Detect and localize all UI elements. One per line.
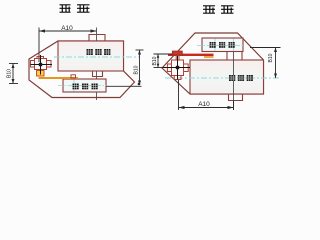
cyan verticals in filter — [214, 39, 216, 52]
horizontal centerline cyan right — [165, 77, 280, 79]
bottom notch — [229, 94, 243, 101]
right dimension B10 — [106, 50, 144, 86]
dimension A10 bottom — [179, 80, 234, 110]
pump cross right — [163, 56, 191, 80]
pump right — [167, 55, 188, 80]
filter centerline right — [197, 45, 243, 47]
refrigerator box — [58, 41, 124, 71]
filter box — [63, 79, 106, 92]
chimney notch on top — [89, 35, 105, 42]
hexagon outline — [29, 41, 135, 98]
svg-text:B10: B10 — [152, 56, 158, 65]
vertical centerline right — [233, 39, 235, 53]
cyan vertical in filter — [73, 80, 75, 92]
svg-text:A10: A10 — [198, 101, 210, 108]
svg-text:A10: A10 — [61, 25, 73, 32]
svg-text:B10: B10 — [268, 53, 274, 62]
filter centerline — [58, 85, 106, 87]
pump assembly — [31, 57, 52, 70]
label filter — [73, 84, 98, 90]
left small dimension right diagram — [154, 54, 173, 68]
orange bit under pipe end — [204, 56, 214, 58]
svg-text:B10: B10 — [7, 69, 13, 78]
extension line left — [38, 28, 40, 63]
label 制冷机 right — [229, 75, 253, 81]
left small dimension B — [9, 64, 18, 84]
svg-text:B10: B10 — [134, 65, 140, 74]
vertical centerline — [96, 28, 98, 101]
filter box right — [202, 38, 243, 52]
thick red pipe — [168, 54, 214, 56]
orange pipe — [39, 77, 79, 79]
horizontal centerline cyan — [54, 56, 140, 58]
mid notch below box — [93, 71, 103, 77]
dim line — [39, 30, 97, 32]
label 制冷机 — [87, 49, 111, 55]
refrigerator box right — [190, 60, 264, 94]
red tab on pipe — [71, 75, 76, 78]
dimension B10 right side — [250, 48, 281, 79]
title 右裝 — [60, 5, 90, 13]
label filter right — [210, 42, 235, 48]
title 左裝 — [203, 6, 234, 14]
pump yellow bottom — [37, 71, 45, 77]
connector notch — [227, 52, 242, 61]
pump cross centerlines — [31, 55, 53, 75]
connector block on pipe — [172, 51, 182, 55]
dimension A10 top — [39, 28, 97, 63]
hexagon outline right — [162, 33, 264, 94]
